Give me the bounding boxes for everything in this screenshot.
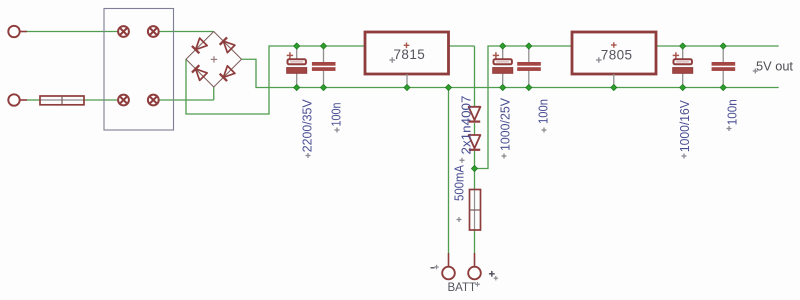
svg-text:100n: 100n [329,103,344,127]
svg-text:7815: 7815 [394,47,426,62]
svg-text:1000/25V: 1000/25V [498,98,513,151]
svg-text:2200/35V: 2200/35V [300,99,315,152]
svg-text:5V out: 5V out [756,58,793,73]
svg-text:100n: 100n [536,99,551,124]
svg-text:BATT: BATT [448,282,477,294]
svg-text:500mA: 500mA [452,165,467,201]
svg-text:1000/16V: 1000/16V [677,100,692,152]
svg-text:2x1n4007: 2x1n4007 [459,96,474,155]
svg-text:100n: 100n [725,99,740,125]
svg-text:7805: 7805 [601,47,633,62]
